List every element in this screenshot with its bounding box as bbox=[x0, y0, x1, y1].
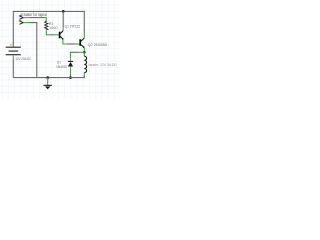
connector pin 1 bbox=[19, 16, 24, 19]
diode D1 bbox=[68, 57, 73, 69]
node junction top rail to Q1 collector bbox=[62, 10, 65, 13]
transistor Q2 bbox=[80, 38, 85, 48]
wire ground rail bbox=[13, 76, 84, 78]
wire Q2 collector pin bbox=[83, 34, 85, 38]
wire pin2 down to ground rail bbox=[23, 23, 37, 78]
svg-text:Q2 2N3055: Q2 2N3055 bbox=[88, 43, 108, 47]
svg-text:12V 20A DC: 12V 20A DC bbox=[15, 57, 31, 61]
svg-text:1000: 1000 bbox=[49, 26, 58, 30]
svg-text:1N4007: 1N4007 bbox=[56, 65, 68, 69]
connector pin 2 bbox=[19, 21, 24, 24]
ground bbox=[44, 85, 52, 89]
node emitter junction bbox=[83, 51, 86, 54]
svg-text:Q1 TIP122: Q1 TIP122 bbox=[65, 25, 81, 29]
svg-text:heater, 12V 3A DC: heater, 12V 3A DC bbox=[89, 63, 118, 67]
wire battery minus down bbox=[12, 59, 14, 78]
svg-text:actuator for signal: actuator for signal bbox=[20, 12, 47, 17]
wire R1 to Q1 base bbox=[46, 31, 58, 35]
wire junction to D1 bbox=[71, 52, 85, 57]
wire pin1 to R1 bbox=[23, 18, 46, 22]
wire Q1 collector riser bbox=[62, 11, 64, 27]
wire Q1 emitter to Q2 base bbox=[63, 40, 80, 44]
node ground rail junction bbox=[46, 76, 49, 79]
wire top rail bbox=[13, 11, 84, 46]
resistor R1 bbox=[45, 20, 48, 32]
wire rail to ground bbox=[47, 78, 49, 85]
grid bbox=[0, 0, 120, 99]
wire D1 to ground rail bbox=[70, 69, 72, 74]
svg-text:D1: D1 bbox=[57, 60, 61, 64]
wire Q1 collector pin bbox=[62, 27, 64, 31]
transistor Q1 bbox=[60, 31, 64, 40]
battery B1 bbox=[6, 42, 21, 58]
inductor L1 heater bbox=[84, 52, 86, 77]
node D1 rail junction bbox=[69, 76, 72, 79]
wire Q2 emitter pin bbox=[83, 48, 85, 53]
